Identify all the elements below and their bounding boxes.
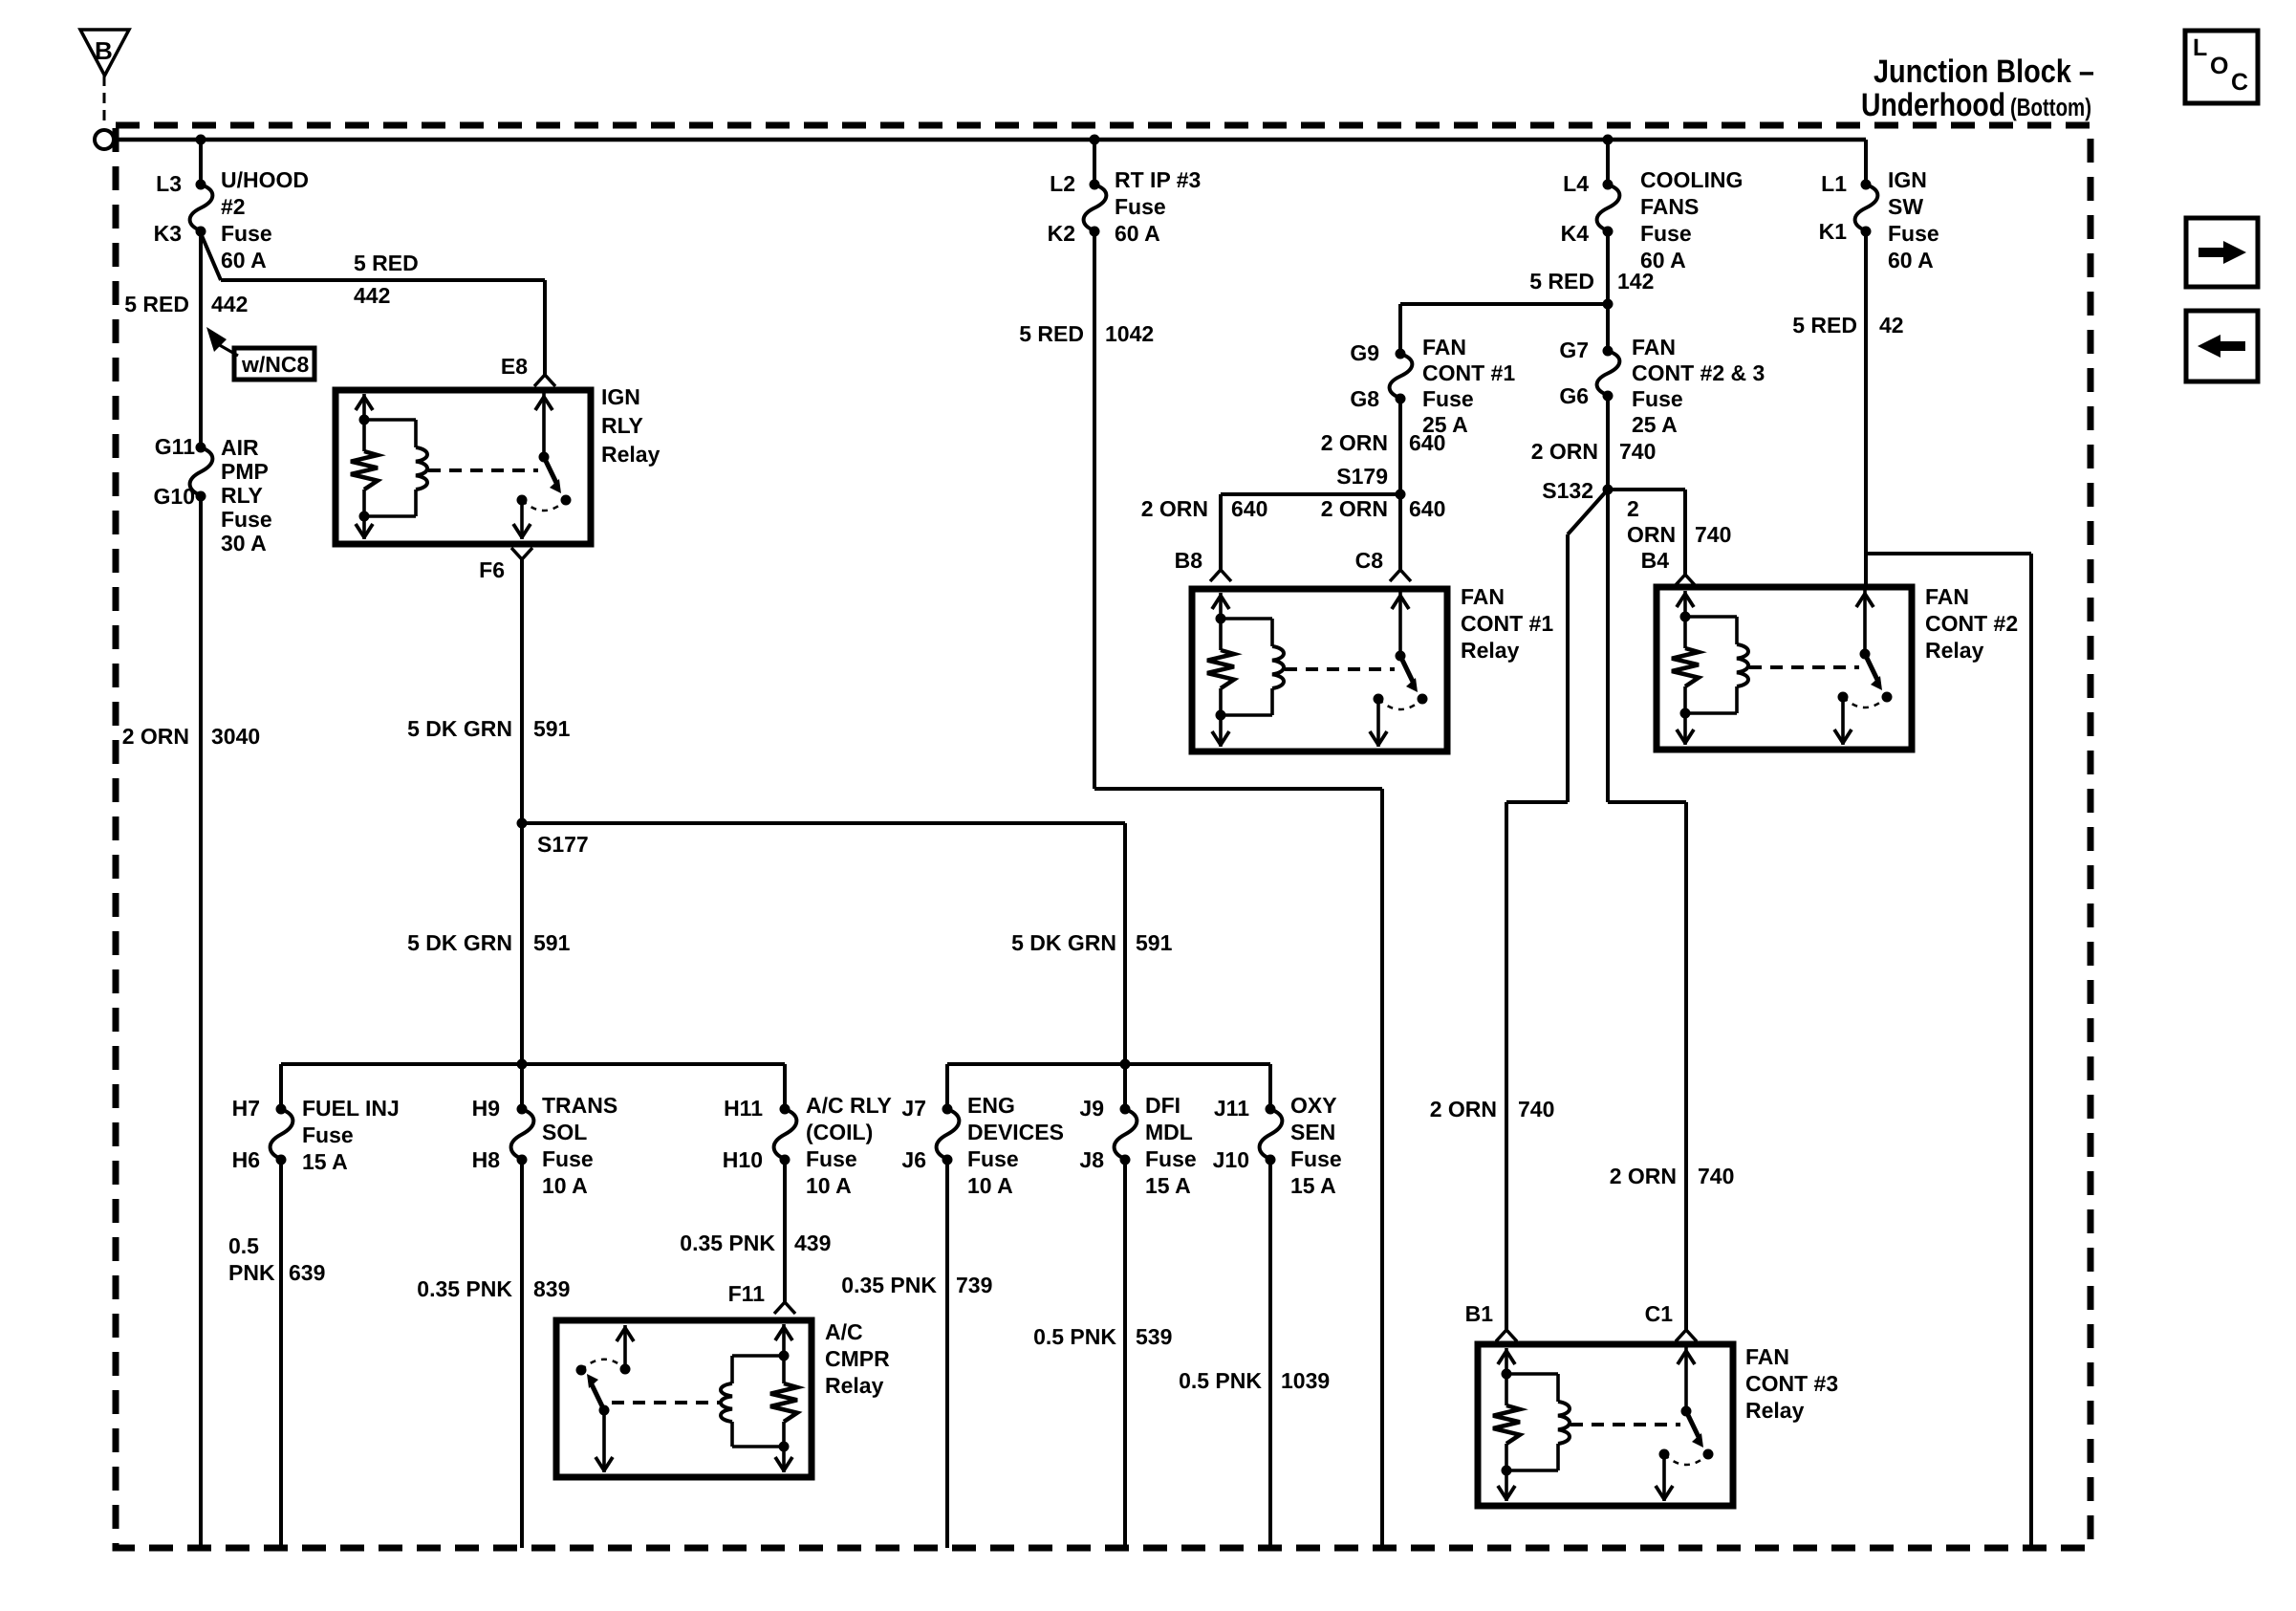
svg-text:RT IP #3: RT IP #3 — [1115, 167, 1201, 192]
svg-text:60 A: 60 A — [1888, 248, 1934, 272]
wire S179 to B8 (2 ORN 640) — [1221, 492, 1400, 496]
relay FAN CONT #2 K2 resistor — [1683, 617, 1687, 648]
svg-text:740: 740 — [1518, 1097, 1554, 1121]
svg-text:5 RED: 5 RED — [1792, 313, 1857, 337]
svg-text:A/C RLY: A/C RLY — [806, 1093, 892, 1118]
svg-text:COOLING: COOLING — [1640, 167, 1743, 192]
relay IGN RLY U1 switch common line — [542, 393, 546, 457]
node S177 — [517, 818, 528, 829]
svg-text:AIR: AIR — [221, 435, 259, 460]
relay IGN RLY U1 switch output arrow — [520, 500, 524, 539]
relay IGN RLY U1 switch blade — [544, 457, 557, 485]
svg-text:SEN: SEN — [1290, 1120, 1335, 1144]
wire K4 to fuse FAN CONT #2 & 3 — [1606, 304, 1610, 351]
fuse ENG DEVICES (terminals J7/J6) — [937, 1109, 960, 1160]
svg-text:FAN: FAN — [1422, 335, 1466, 359]
fuse DFI MDL (terminals J9/J8) — [1115, 1109, 1137, 1160]
svg-text:FAN: FAN — [1632, 335, 1676, 359]
wire K2 to boundary (5 RED 1042) — [1093, 231, 1096, 789]
relay FAN CONT #2 K2 coil input line — [1683, 591, 1687, 617]
wire junction to fuse FAN CONT #1 — [1400, 302, 1608, 306]
wire K1 down (5 RED 42) — [1864, 231, 1868, 554]
junction dot bus/L3 — [196, 135, 206, 145]
svg-text:CONT #3: CONT #3 — [1745, 1371, 1838, 1396]
svg-text:15 A: 15 A — [1290, 1173, 1336, 1198]
svg-text:5 RED: 5 RED — [124, 292, 189, 316]
svg-text:591: 591 — [533, 930, 571, 955]
svg-text:839: 839 — [533, 1276, 570, 1301]
junction dot bus/L2 — [1090, 135, 1100, 145]
relay IGN RLY U1 coil winding — [364, 418, 416, 422]
svg-text:G9: G9 — [1350, 340, 1379, 365]
wire J6 to boundary (0.35 PNK 739) — [945, 1160, 949, 1548]
svg-text:10 A: 10 A — [542, 1173, 588, 1198]
svg-text:FAN: FAN — [1461, 584, 1505, 609]
relay FAN CONT #3 K3 coil input line — [1505, 1348, 1508, 1374]
left arrow symbol — [2220, 341, 2245, 351]
svg-text:15 A: 15 A — [302, 1149, 348, 1174]
svg-text:Relay: Relay — [1461, 638, 1520, 663]
wire S132 to B4 (2 ORN 740) — [1608, 488, 1685, 491]
svg-text:L1: L1 — [1821, 171, 1847, 196]
svg-text:(COIL): (COIL) — [806, 1120, 873, 1144]
svg-text:15 A: 15 A — [1145, 1173, 1191, 1198]
relay A/C CMPR coil output arrow — [782, 1447, 786, 1472]
svg-text:2 ORN: 2 ORN — [122, 724, 189, 749]
svg-text:640: 640 — [1409, 496, 1445, 521]
relay IGN RLY U1 resistor — [362, 420, 366, 451]
svg-text:0.5: 0.5 — [228, 1233, 259, 1258]
LOC legend box — [2185, 31, 2258, 103]
svg-text:CMPR: CMPR — [825, 1346, 890, 1371]
fuse U/HOOD #2 (terminals L3/K3) — [190, 185, 213, 231]
svg-text:739: 739 — [956, 1273, 992, 1297]
relay FAN CONT #1 K1 coil input line — [1219, 593, 1223, 619]
junction dot 142 branch — [1603, 299, 1614, 310]
svg-text:IGN: IGN — [1888, 167, 1927, 192]
wire J10 to boundary (0.5 PNK 1039) — [1268, 1160, 1272, 1548]
svg-text:Underhood: Underhood — [1861, 87, 2005, 123]
wire J8 to boundary (0.5 PNK 539) — [1123, 1160, 1127, 1548]
svg-text:0.5 PNK: 0.5 PNK — [1179, 1368, 1262, 1393]
svg-text:K3: K3 — [154, 221, 182, 246]
svg-text:FANS: FANS — [1640, 194, 1699, 219]
svg-text:740: 740 — [1698, 1164, 1734, 1188]
svg-text:FUEL INJ: FUEL INJ — [302, 1096, 400, 1121]
wire bus to fuse COOLING FANS — [1606, 140, 1610, 185]
svg-text:SW: SW — [1888, 194, 1923, 219]
svg-text:FAN: FAN — [1925, 584, 1969, 609]
svg-text:Fuse: Fuse — [1632, 386, 1683, 411]
wire to C1 (2 ORN 740) — [1684, 802, 1688, 1330]
svg-text:142: 142 — [1617, 269, 1654, 294]
svg-text:639: 639 — [289, 1260, 325, 1285]
svg-text:H11: H11 — [724, 1096, 763, 1121]
svg-text:Junction Block –: Junction Block – — [1874, 54, 2094, 90]
svg-text:5 RED: 5 RED — [354, 250, 419, 275]
svg-text:G6: G6 — [1559, 383, 1589, 408]
svg-text:B1: B1 — [1465, 1301, 1494, 1326]
relay IGN RLY U1 switch contact — [517, 495, 528, 506]
relay FAN CONT #3 K3 switch common line — [1684, 1347, 1688, 1411]
svg-text:740: 740 — [1695, 522, 1731, 547]
connector pin F6 — [511, 548, 532, 559]
fuse FAN CONT #2 & 3 (terminals G7/G6) — [1597, 351, 1620, 396]
main feed bus wire — [114, 138, 1866, 142]
svg-text:10 A: 10 A — [806, 1173, 852, 1198]
svg-text:ENG: ENG — [967, 1093, 1015, 1118]
svg-text:Fuse: Fuse — [542, 1146, 594, 1171]
dashed lead from marker B — [103, 76, 106, 127]
svg-text:5 DK GRN: 5 DK GRN — [407, 716, 512, 741]
svg-text:J7: J7 — [901, 1096, 926, 1121]
svg-text:42: 42 — [1879, 313, 1904, 337]
relay FAN CONT #2 K2 switch output arrow — [1841, 697, 1845, 745]
relay FAN CONT #1 K1 coil output arrow — [1219, 715, 1223, 747]
relay FAN CONT #2 K2 box — [1657, 587, 1912, 750]
connector pin C1 — [1676, 1330, 1697, 1341]
svg-text:0.35 PNK: 0.35 PNK — [841, 1273, 937, 1297]
wire bus to fuse U/HOOD #2 — [199, 140, 203, 185]
svg-text:RLY: RLY — [221, 483, 263, 508]
svg-text:Fuse: Fuse — [806, 1146, 857, 1171]
wire bus to fuse RT IP #3 — [1093, 140, 1096, 185]
connector pin B8 — [1210, 570, 1231, 581]
fuse AIR PMP RLY (terminals G11/G10) — [190, 447, 213, 496]
relay FAN CONT #3 K3 coil output arrow — [1505, 1470, 1508, 1501]
relay A/C CMPR coil input line — [782, 1324, 786, 1356]
relay FAN CONT #2 K2 switch common line — [1863, 590, 1867, 654]
svg-text:DEVICES: DEVICES — [967, 1120, 1064, 1144]
wire H8 to boundary (0.35 PNK 839) — [520, 1160, 524, 1548]
svg-text:5 RED: 5 RED — [1019, 321, 1084, 346]
connector pin B1 — [1496, 1330, 1517, 1341]
svg-text:PNK: PNK — [228, 1260, 275, 1285]
svg-text:Fuse: Fuse — [1115, 194, 1166, 219]
relay FAN CONT #1 K1 resistor — [1219, 619, 1223, 650]
wire G6 to S132 (2 ORN 740) — [1606, 396, 1610, 490]
wire K1 into FAN CONT #2 switch — [1864, 554, 1868, 590]
svg-text:S132: S132 — [1542, 478, 1593, 503]
svg-text:J9: J9 — [1079, 1096, 1104, 1121]
svg-text:DFI: DFI — [1145, 1093, 1180, 1118]
svg-text:2 ORN: 2 ORN — [1531, 439, 1598, 464]
svg-text:Fuse: Fuse — [1422, 386, 1474, 411]
connector pin B4 — [1675, 575, 1696, 586]
svg-text:60 A: 60 A — [1115, 221, 1160, 246]
svg-text:2 ORN: 2 ORN — [1430, 1097, 1497, 1121]
svg-text:MDL: MDL — [1145, 1120, 1193, 1144]
svg-text:K1: K1 — [1819, 219, 1848, 244]
connector pin F11 — [774, 1302, 795, 1314]
relay FAN CONT #3 K3 resistor — [1505, 1374, 1508, 1405]
svg-text:G7: G7 — [1559, 337, 1589, 362]
svg-text:w/NC8: w/NC8 — [241, 352, 310, 377]
relay FAN CONT #1 K1 coil winding — [1221, 617, 1272, 620]
wire S177 to right fuse bus branch — [522, 821, 1125, 825]
svg-text:IGN: IGN — [601, 384, 640, 409]
option arrow w/NC8 — [206, 327, 227, 352]
wire S132 column down to C1 jog — [1606, 490, 1610, 802]
svg-text:E8: E8 — [501, 354, 528, 379]
relay FAN CONT #3 K3 switch output arrow — [1662, 1454, 1666, 1501]
wire F6 to S177 (5 DK GRN 591) — [520, 559, 524, 823]
svg-text:B4: B4 — [1641, 548, 1670, 573]
right arrow symbol — [2199, 248, 2223, 257]
relay FAN CONT #3 K3 box — [1478, 1344, 1733, 1506]
svg-text:Relay: Relay — [1925, 638, 1984, 663]
relay FAN CONT #1 K1 actuation dashed link — [1285, 667, 1395, 671]
svg-text:J10: J10 — [1213, 1147, 1249, 1172]
svg-text:5 RED: 5 RED — [1529, 269, 1594, 294]
svg-text:5 DK GRN: 5 DK GRN — [407, 930, 512, 955]
svg-text:(Bottom): (Bottom) — [2010, 93, 2091, 121]
wire K3 to E8 (5 RED 442) — [201, 233, 221, 280]
svg-text:TRANS: TRANS — [542, 1093, 617, 1118]
wire S177 to left fuse bus (5 DK GRN 591) — [520, 823, 524, 1109]
svg-text:O: O — [2210, 53, 2228, 79]
relay FAN CONT #1 K1 switch contact — [1374, 694, 1384, 705]
svg-text:2 ORN: 2 ORN — [1141, 496, 1208, 521]
arrow legend box left — [2186, 311, 2258, 381]
svg-text:C: C — [2231, 69, 2248, 96]
fuse FUEL INJ (terminals H7/H6) — [271, 1109, 293, 1160]
relay IGN RLY U1 box — [336, 390, 591, 544]
relay A/C CMPR switch contact line — [623, 1325, 627, 1369]
svg-text:2: 2 — [1627, 496, 1639, 521]
junction dot right fuse bus — [1120, 1059, 1131, 1070]
relay FAN CONT #1 K1 box — [1192, 589, 1447, 751]
junction block dashed boundary — [116, 125, 2090, 1548]
svg-text:F11: F11 — [728, 1281, 766, 1306]
svg-text:Fuse: Fuse — [1640, 221, 1692, 246]
svg-text:Fuse: Fuse — [1290, 1146, 1342, 1171]
svg-text:L3: L3 — [156, 171, 182, 196]
svg-text:60 A: 60 A — [221, 248, 267, 272]
svg-text:640: 640 — [1231, 496, 1267, 521]
svg-text:CONT #1: CONT #1 — [1422, 360, 1515, 385]
wire S179 to C8 (2 ORN 640) — [1398, 494, 1402, 570]
arrow legend box right — [2186, 218, 2258, 287]
fuse TRANS SOL (terminals H9/H8) — [511, 1109, 534, 1160]
svg-text:Relay: Relay — [601, 442, 661, 467]
svg-text:B: B — [95, 36, 113, 65]
relay A/C CMPR resistor — [782, 1356, 786, 1383]
right fuse feed bus — [947, 1062, 1270, 1066]
svg-text:A/C: A/C — [825, 1319, 863, 1344]
relay A/C CMPR switch output arrow — [602, 1410, 606, 1472]
wire G10 to boundary (2 ORN 3040) — [199, 496, 203, 1548]
svg-text:10 A: 10 A — [967, 1173, 1013, 1198]
wire H10 to F11 (0.35 PNK 439) — [783, 1160, 787, 1302]
junction dot left fuse bus — [517, 1059, 528, 1070]
relay FAN CONT #2 K2 coil winding — [1685, 615, 1737, 619]
svg-text:L2: L2 — [1050, 171, 1075, 196]
svg-text:2 ORN: 2 ORN — [1610, 1164, 1677, 1188]
connector pin E8 — [534, 375, 555, 386]
relay FAN CONT #3 K3 actuation dashed link — [1570, 1423, 1680, 1426]
svg-text:0.35 PNK: 0.35 PNK — [680, 1230, 775, 1255]
triangle connector marker B — [80, 30, 129, 76]
svg-text:0.35 PNK: 0.35 PNK — [417, 1276, 512, 1301]
svg-text:U/HOOD: U/HOOD — [221, 167, 309, 192]
node S179 — [1396, 490, 1406, 500]
fuse IGN SW (terminals L1/K1) — [1855, 185, 1878, 231]
svg-text:G11: G11 — [155, 434, 195, 459]
relay FAN CONT #3 K3 switch contact — [1659, 1449, 1670, 1460]
svg-text:G10: G10 — [154, 484, 195, 509]
svg-text:H7: H7 — [232, 1096, 260, 1121]
svg-text:#2: #2 — [221, 194, 246, 219]
svg-text:Fuse: Fuse — [1145, 1146, 1197, 1171]
svg-text:K4: K4 — [1561, 221, 1590, 246]
svg-text:439: 439 — [794, 1230, 831, 1255]
svg-text:C1: C1 — [1645, 1301, 1674, 1326]
svg-text:C8: C8 — [1355, 548, 1384, 573]
relay IGN RLY U1 coil output arrow — [362, 516, 366, 539]
relay A/C CMPR switch pivot — [599, 1405, 610, 1416]
fuse FAN CONT #1 (terminals G9/G8) — [1390, 354, 1413, 399]
wire K1 branch right and down to boundary — [1866, 552, 2031, 555]
connector pin C8 — [1390, 570, 1411, 581]
svg-text:F6: F6 — [479, 557, 505, 582]
svg-text:25 A: 25 A — [1632, 412, 1678, 437]
svg-text:3040: 3040 — [211, 724, 260, 749]
svg-text:442: 442 — [354, 283, 390, 308]
svg-text:Relay: Relay — [825, 1373, 884, 1398]
option callout box w/NC8 — [234, 348, 314, 380]
svg-text:J8: J8 — [1079, 1147, 1104, 1172]
fuse OXY SEN (terminals J11/J10) — [1260, 1109, 1283, 1160]
svg-text:L: L — [2193, 34, 2207, 61]
svg-text:Fuse: Fuse — [302, 1122, 354, 1147]
svg-text:Fuse: Fuse — [967, 1146, 1019, 1171]
relay A/C CMPR switch blade — [591, 1382, 604, 1410]
svg-text:CONT #2: CONT #2 — [1925, 611, 2018, 636]
svg-text:1042: 1042 — [1105, 321, 1154, 346]
fuse COOLING FANS (terminals L4/K4) — [1597, 185, 1620, 231]
svg-text:2 ORN: 2 ORN — [1321, 430, 1388, 455]
svg-text:0.5 PNK: 0.5 PNK — [1033, 1324, 1116, 1349]
svg-text:RLY: RLY — [601, 413, 643, 438]
svg-text:Fuse: Fuse — [221, 507, 272, 532]
svg-text:FAN: FAN — [1745, 1344, 1789, 1369]
wire K3 to AIR PMP RLY fuse (5 RED 442) — [199, 231, 203, 447]
wire S132 diagonal to B1 drop — [1568, 490, 1608, 534]
relay FAN CONT #1 K1 switch blade — [1400, 656, 1414, 684]
svg-text:1039: 1039 — [1281, 1368, 1330, 1393]
wire G8 to S179 (2 ORN 640) — [1398, 399, 1402, 494]
junction dot bus/L4 — [1603, 135, 1614, 145]
terminal circle at junction block feed — [95, 130, 114, 149]
svg-text:G8: G8 — [1350, 386, 1379, 411]
svg-text:K2: K2 — [1048, 221, 1075, 246]
svg-text:L4: L4 — [1563, 171, 1589, 196]
svg-text:30 A: 30 A — [221, 531, 267, 555]
relay FAN CONT #3 K3 coil winding — [1506, 1372, 1558, 1376]
svg-text:J6: J6 — [901, 1147, 926, 1172]
relay FAN CONT #1 K1 switch output arrow — [1376, 699, 1380, 747]
svg-text:OXY: OXY — [1290, 1093, 1337, 1118]
fuse RT IP #3 (terminals L2/K2) — [1084, 185, 1107, 231]
wire to B1 (2 ORN 740) — [1505, 802, 1508, 1330]
relay IGN RLY U1 coil input line — [362, 394, 366, 420]
svg-text:SOL: SOL — [542, 1120, 587, 1144]
relay IGN RLY U1 actuation dashed link — [428, 468, 538, 472]
svg-text:2 ORN: 2 ORN — [1321, 496, 1388, 521]
relay FAN CONT #2 K2 switch blade — [1865, 654, 1878, 682]
svg-text:Fuse: Fuse — [1888, 221, 1939, 246]
svg-text:Fuse: Fuse — [221, 221, 272, 246]
svg-text:H10: H10 — [723, 1147, 763, 1172]
wire bus to fuse IGN SW — [1864, 140, 1868, 185]
svg-text:S179: S179 — [1336, 464, 1388, 489]
svg-text:B8: B8 — [1175, 548, 1203, 573]
relay FAN CONT #3 K3 switch blade — [1686, 1411, 1700, 1439]
fuse A/C RLY COIL (terminals H11/H10) — [774, 1109, 797, 1160]
node S132 — [1603, 485, 1614, 495]
svg-text:H8: H8 — [472, 1147, 501, 1172]
relay FAN CONT #1 K1 switch common line — [1398, 592, 1402, 656]
wire H6 to boundary (0.5 PNK 639) — [279, 1160, 283, 1548]
svg-text:442: 442 — [211, 292, 248, 316]
svg-text:J11: J11 — [1214, 1096, 1249, 1121]
svg-text:CONT #1: CONT #1 — [1461, 611, 1553, 636]
svg-text:640: 640 — [1409, 430, 1445, 455]
svg-text:S177: S177 — [537, 832, 589, 857]
relay FAN CONT #2 K2 coil output arrow — [1683, 713, 1687, 745]
svg-text:5 DK GRN: 5 DK GRN — [1011, 930, 1116, 955]
left fuse feed bus — [281, 1062, 785, 1066]
svg-text:591: 591 — [1136, 930, 1173, 955]
svg-text:CONT #2 & 3: CONT #2 & 3 — [1632, 360, 1765, 385]
svg-text:H9: H9 — [472, 1096, 500, 1121]
relay A/C CMPR coil winding — [732, 1354, 784, 1358]
svg-text:ORN: ORN — [1627, 522, 1676, 547]
relay A/C CMPR actuation dashed link — [612, 1401, 720, 1404]
relay A/C CMPR box — [556, 1320, 812, 1477]
svg-text:740: 740 — [1619, 439, 1656, 464]
wire K4 to junction (5 RED 142) — [1606, 231, 1610, 304]
svg-text:591: 591 — [533, 716, 571, 741]
svg-text:Relay: Relay — [1745, 1398, 1805, 1423]
svg-text:539: 539 — [1136, 1324, 1172, 1349]
svg-text:PMP: PMP — [221, 459, 269, 484]
relay FAN CONT #2 K2 switch contact — [1838, 692, 1849, 703]
relay FAN CONT #2 K2 actuation dashed link — [1749, 665, 1859, 669]
svg-text:H6: H6 — [232, 1147, 260, 1172]
